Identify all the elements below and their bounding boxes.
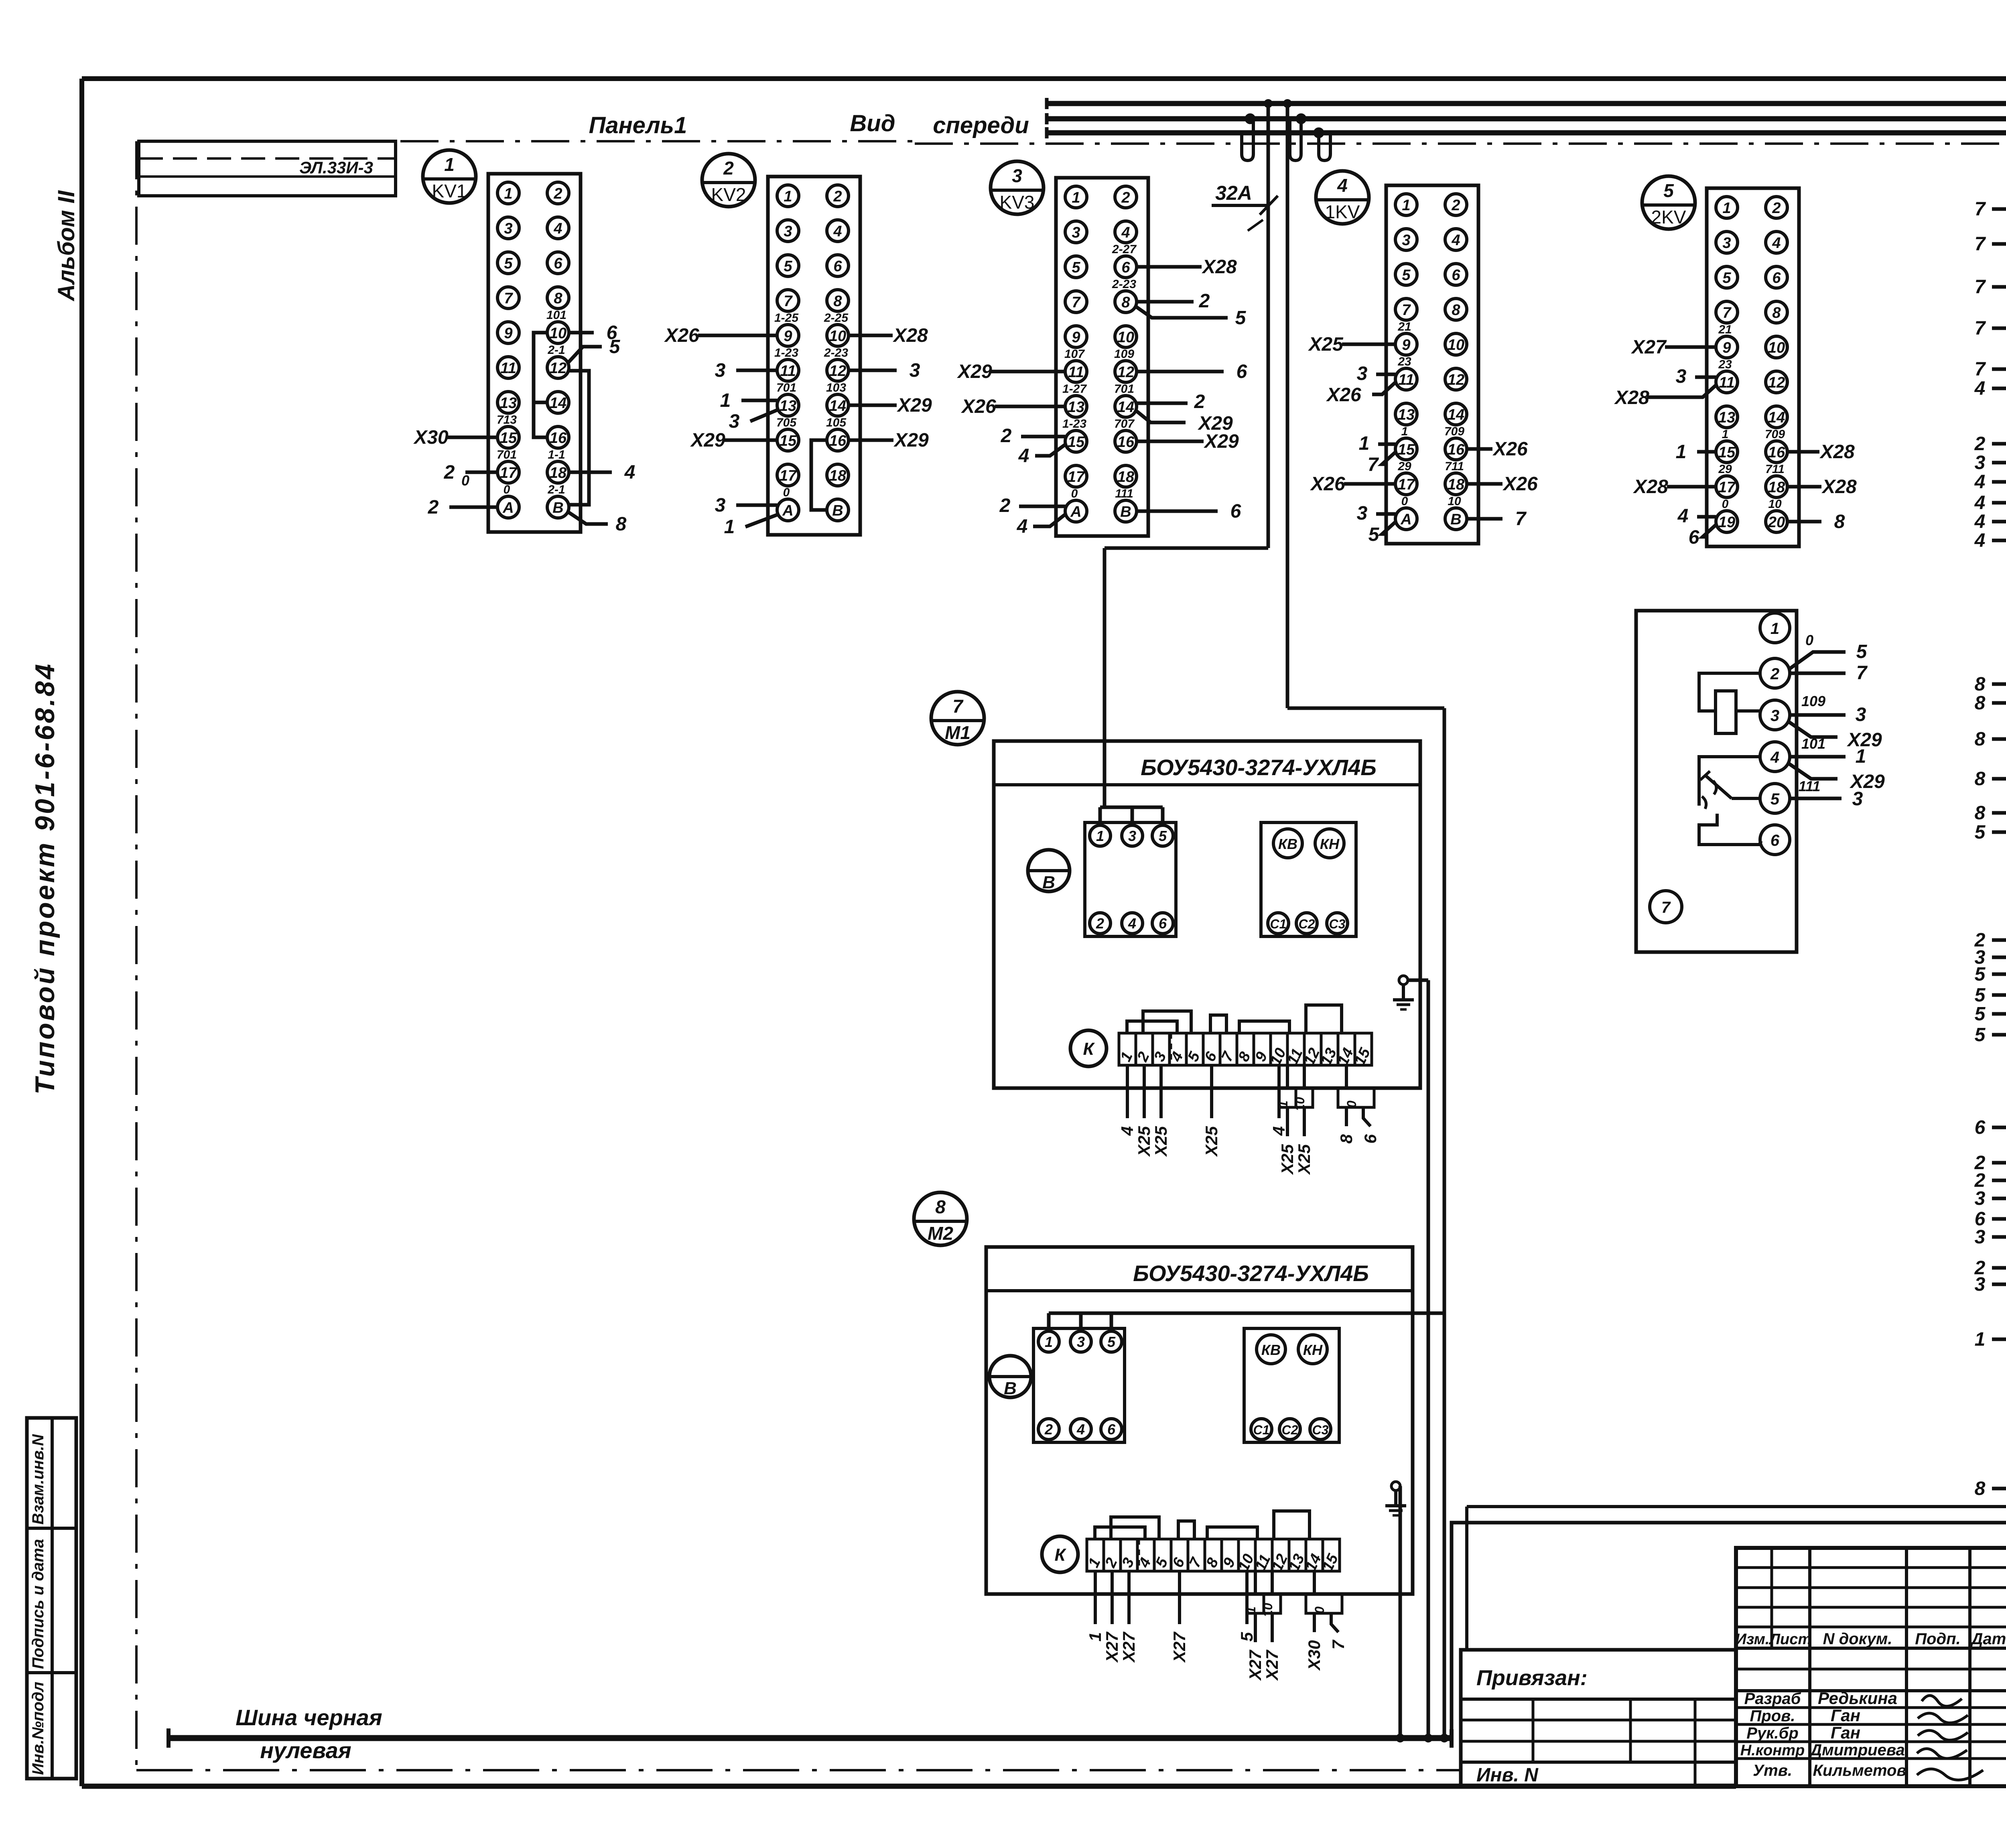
svg-text:3: 3 — [715, 360, 726, 381]
svg-text:8: 8 — [1975, 674, 1986, 695]
svg-text:В: В — [832, 502, 843, 519]
svg-text:7: 7 — [1975, 359, 1986, 380]
svg-text:29: 29 — [1718, 463, 1732, 476]
svg-text:Н.контр: Н.контр — [1740, 1742, 1805, 1759]
svg-text:8: 8 — [1975, 729, 1986, 750]
svg-text:Ган: Ган — [1831, 1723, 1860, 1742]
svg-text:7: 7 — [1722, 305, 1732, 321]
svg-text:С2: С2 — [1282, 1423, 1298, 1437]
svg-text:6: 6 — [554, 255, 562, 272]
svg-text:А: А — [502, 500, 514, 516]
svg-text:5: 5 — [1237, 1632, 1256, 1641]
svg-text:4: 4 — [1974, 378, 1986, 399]
svg-text:1: 1 — [1770, 620, 1779, 638]
svg-text:701: 701 — [497, 448, 517, 461]
svg-text:X29: X29 — [896, 395, 932, 416]
svg-text:7: 7 — [1975, 234, 1986, 255]
svg-text:14: 14 — [1768, 409, 1785, 426]
svg-text:7: 7 — [1368, 454, 1379, 475]
svg-text:7: 7 — [1661, 899, 1671, 916]
svg-text:14: 14 — [1117, 399, 1134, 416]
svg-text:X30: X30 — [1305, 1640, 1324, 1671]
svg-text:Инв. N: Инв. N — [1476, 1765, 1539, 1786]
svg-text:16: 16 — [1768, 444, 1785, 461]
svg-text:4: 4 — [833, 223, 842, 240]
svg-text:X25: X25 — [1151, 1126, 1170, 1157]
svg-text:4: 4 — [1772, 235, 1781, 252]
svg-text:БОУ5430-3274-УХЛ4Б: БОУ5430-3274-УХЛ4Б — [1133, 1261, 1369, 1286]
svg-text:Кильметов: Кильметов — [1813, 1762, 1906, 1779]
svg-text:X26: X26 — [1492, 439, 1528, 460]
svg-text:20: 20 — [1768, 514, 1785, 531]
svg-text:Шина черная: Шина черная — [236, 1705, 382, 1730]
svg-text:13: 13 — [1718, 409, 1735, 426]
svg-text:8: 8 — [1975, 692, 1986, 714]
svg-text:8: 8 — [1121, 294, 1130, 311]
svg-text:15: 15 — [1718, 444, 1736, 461]
svg-text:711: 711 — [1445, 460, 1464, 473]
svg-text:701: 701 — [1114, 382, 1134, 396]
svg-text:X28: X28 — [1632, 476, 1668, 498]
svg-text:1: 1 — [1676, 441, 1687, 463]
svg-text:29: 29 — [1397, 460, 1411, 473]
svg-text:4: 4 — [1974, 471, 1986, 493]
svg-text:5: 5 — [784, 258, 792, 275]
svg-text:2: 2 — [1044, 1421, 1053, 1438]
svg-text:6: 6 — [1770, 832, 1780, 849]
svg-text:6: 6 — [1975, 1117, 1986, 1138]
svg-text:X26: X26 — [664, 325, 699, 346]
svg-text:713: 713 — [497, 413, 517, 426]
svg-text:KV1: KV1 — [432, 181, 467, 201]
svg-text:18: 18 — [550, 465, 567, 481]
svg-text:3: 3 — [1128, 828, 1136, 844]
svg-text:5: 5 — [504, 255, 513, 272]
svg-text:21: 21 — [1397, 320, 1411, 333]
svg-text:16: 16 — [1117, 434, 1135, 451]
svg-text:105: 105 — [826, 416, 847, 429]
svg-text:3: 3 — [504, 220, 512, 237]
svg-text:Лист: Лист — [1768, 1631, 1811, 1648]
svg-text:109: 109 — [1114, 347, 1134, 361]
svg-text:С1: С1 — [1253, 1423, 1270, 1437]
svg-text:X29: X29 — [893, 430, 929, 451]
svg-text:17: 17 — [1068, 469, 1085, 485]
svg-text:4: 4 — [1017, 516, 1028, 537]
svg-text:6: 6 — [1107, 1421, 1116, 1438]
svg-text:X27: X27 — [1263, 1649, 1281, 1681]
svg-text:13: 13 — [1398, 406, 1415, 423]
svg-text:2: 2 — [1770, 665, 1779, 683]
svg-text:8: 8 — [616, 514, 627, 535]
svg-text:9: 9 — [1072, 329, 1080, 346]
svg-text:19: 19 — [1718, 514, 1735, 531]
svg-text:Утв.: Утв. — [1753, 1762, 1792, 1779]
svg-text:М1: М1 — [945, 722, 971, 743]
svg-text:1: 1 — [1722, 428, 1729, 441]
svg-text:КВ: КВ — [1261, 1342, 1281, 1358]
svg-text:4: 4 — [1121, 224, 1130, 241]
svg-text:23: 23 — [1397, 355, 1411, 368]
svg-text:2: 2 — [999, 495, 1011, 516]
svg-text:X28: X28 — [892, 325, 928, 346]
svg-text:709: 709 — [1444, 425, 1464, 438]
svg-text:2-1: 2-1 — [547, 483, 565, 496]
svg-text:4: 4 — [1974, 492, 1986, 514]
svg-text:X26: X26 — [1310, 473, 1345, 495]
svg-text:5: 5 — [1722, 270, 1731, 286]
svg-text:5: 5 — [1856, 641, 1868, 662]
svg-text:10: 10 — [1117, 329, 1134, 346]
svg-text:5: 5 — [1975, 985, 1986, 1006]
svg-text:15: 15 — [780, 433, 797, 449]
svg-text:7: 7 — [1072, 294, 1081, 311]
svg-text:16: 16 — [550, 430, 567, 447]
svg-text:16: 16 — [1448, 441, 1465, 458]
svg-text:Типовой проект 901-6-68.84: Типовой проект 901-6-68.84 — [30, 662, 60, 1095]
svg-text:2-1: 2-1 — [547, 343, 565, 357]
svg-text:3: 3 — [1975, 1227, 1986, 1248]
svg-text:0: 0 — [1071, 487, 1078, 500]
svg-text:1: 1 — [720, 390, 731, 411]
svg-text:14: 14 — [829, 398, 846, 414]
svg-text:103: 103 — [826, 381, 846, 394]
svg-text:4: 4 — [1018, 445, 1029, 467]
svg-text:2: 2 — [1121, 189, 1130, 206]
svg-text:5: 5 — [1975, 822, 1986, 843]
svg-text:2: 2 — [1096, 915, 1104, 932]
svg-text:3: 3 — [1077, 1334, 1085, 1350]
svg-text:6: 6 — [1159, 915, 1167, 932]
svg-text:21: 21 — [1718, 323, 1732, 336]
svg-text:18: 18 — [1768, 479, 1785, 496]
svg-text:0: 0 — [1401, 495, 1408, 508]
svg-text:7: 7 — [1975, 276, 1986, 298]
svg-text:7: 7 — [1329, 1639, 1348, 1649]
svg-text:14: 14 — [1448, 406, 1464, 423]
svg-text:спереди: спереди — [933, 112, 1029, 138]
svg-text:4: 4 — [1974, 530, 1986, 551]
svg-text:6: 6 — [1361, 1134, 1380, 1143]
svg-text:2: 2 — [428, 497, 439, 518]
svg-text:12: 12 — [1768, 374, 1785, 391]
svg-text:16: 16 — [829, 433, 847, 449]
svg-text:1: 1 — [1086, 1632, 1105, 1641]
svg-text:1: 1 — [1402, 197, 1410, 214]
svg-text:X28: X28 — [1201, 256, 1237, 278]
svg-text:1: 1 — [1975, 1329, 1986, 1350]
svg-text:107: 107 — [1064, 347, 1085, 361]
svg-text:3: 3 — [1012, 165, 1022, 186]
svg-text:3: 3 — [715, 495, 726, 516]
svg-text:ЭЛ.33И-3: ЭЛ.33И-3 — [299, 158, 373, 177]
svg-text:5: 5 — [1663, 180, 1674, 201]
svg-text:КН: КН — [1320, 836, 1340, 852]
svg-text:KV3: KV3 — [1000, 192, 1035, 213]
svg-text:1: 1 — [1276, 1101, 1290, 1108]
svg-text:2-23: 2-23 — [1112, 278, 1136, 291]
svg-text:7: 7 — [504, 290, 513, 307]
svg-text:Вид: Вид — [850, 110, 895, 136]
svg-text:Инв.№подл: Инв.№подл — [29, 1681, 47, 1775]
svg-text:10: 10 — [1768, 339, 1785, 356]
svg-text:3: 3 — [1975, 1274, 1986, 1295]
svg-text:711: 711 — [1765, 463, 1785, 476]
svg-text:6: 6 — [1230, 501, 1241, 522]
svg-text:12: 12 — [550, 360, 566, 377]
svg-text:2: 2 — [833, 188, 842, 205]
svg-text:0: 0 — [1312, 1606, 1327, 1614]
svg-text:6: 6 — [1121, 259, 1130, 276]
svg-text:Дата: Дата — [1970, 1630, 2006, 1648]
svg-text:3: 3 — [1357, 363, 1368, 384]
svg-text:В: В — [1120, 504, 1131, 520]
svg-text:3: 3 — [1072, 224, 1080, 241]
svg-text:4: 4 — [1118, 1126, 1137, 1136]
svg-text:М2: М2 — [928, 1223, 953, 1244]
svg-text:17: 17 — [500, 465, 518, 481]
svg-text:17: 17 — [780, 467, 797, 484]
svg-text:2: 2 — [723, 158, 734, 179]
svg-text:Альбом II: Альбом II — [53, 190, 79, 302]
svg-text:3: 3 — [784, 223, 792, 240]
svg-text:13: 13 — [500, 395, 517, 412]
svg-text:Разраб: Разраб — [1744, 1690, 1801, 1708]
svg-text:3: 3 — [1402, 232, 1410, 249]
svg-text:КВ: КВ — [1278, 836, 1297, 852]
svg-text:X25: X25 — [1308, 334, 1344, 355]
svg-text:10: 10 — [550, 325, 566, 342]
svg-text:8: 8 — [1975, 768, 1986, 790]
svg-text:1: 1 — [724, 516, 735, 538]
svg-text:3: 3 — [910, 360, 920, 381]
svg-text:9: 9 — [784, 328, 792, 345]
svg-text:X25: X25 — [1278, 1144, 1297, 1175]
svg-text:4: 4 — [553, 220, 562, 237]
svg-text:1: 1 — [1359, 433, 1370, 454]
svg-text:2-23: 2-23 — [824, 346, 848, 359]
svg-text:С3: С3 — [1312, 1423, 1329, 1437]
svg-text:1-27: 1-27 — [1062, 382, 1087, 396]
svg-text:8: 8 — [1834, 511, 1845, 532]
svg-text:X30: X30 — [413, 427, 449, 448]
svg-text:11: 11 — [1068, 364, 1084, 381]
svg-text:1-23: 1-23 — [774, 346, 798, 359]
svg-text:8: 8 — [935, 1196, 946, 1217]
svg-text:2: 2 — [1199, 290, 1210, 312]
svg-text:КН: КН — [1303, 1342, 1323, 1358]
svg-text:А: А — [782, 502, 793, 519]
svg-text:11: 11 — [1719, 374, 1734, 391]
svg-text:10: 10 — [829, 328, 846, 345]
svg-text:2: 2 — [444, 462, 455, 483]
svg-text:709: 709 — [1765, 428, 1785, 441]
svg-text:13: 13 — [780, 398, 796, 414]
svg-text:В: В — [1042, 873, 1055, 892]
svg-text:18: 18 — [1117, 469, 1135, 485]
svg-text:Редькина: Редькина — [1818, 1689, 1897, 1708]
svg-text:15: 15 — [500, 430, 517, 447]
svg-text:5: 5 — [1770, 790, 1780, 808]
svg-text:7: 7 — [1975, 318, 1986, 339]
svg-text:4: 4 — [1337, 175, 1348, 196]
svg-text:9: 9 — [1402, 337, 1410, 353]
svg-text:4: 4 — [1677, 506, 1689, 527]
svg-text:8: 8 — [1772, 305, 1781, 321]
svg-text:8: 8 — [1975, 1478, 1986, 1499]
svg-text:109: 109 — [1801, 693, 1825, 709]
svg-text:К: К — [1054, 1545, 1066, 1565]
svg-text:12: 12 — [829, 363, 846, 380]
svg-text:БОУ5430-3274-УХЛ4Б: БОУ5430-3274-УХЛ4Б — [1141, 755, 1377, 780]
svg-text:8: 8 — [833, 293, 842, 310]
svg-text:0: 0 — [1722, 498, 1729, 511]
svg-text:4: 4 — [624, 462, 636, 483]
svg-text:N докум.: N докум. — [1823, 1630, 1892, 1648]
svg-text:5: 5 — [609, 336, 621, 357]
svg-text:KV2: KV2 — [711, 184, 746, 205]
svg-text:12: 12 — [1448, 372, 1464, 388]
svg-text:1: 1 — [444, 154, 455, 175]
svg-text:1: 1 — [1096, 828, 1104, 844]
svg-text:8: 8 — [1337, 1134, 1356, 1143]
svg-text:6: 6 — [1236, 361, 1247, 382]
svg-text:4: 4 — [1974, 511, 1986, 532]
svg-text:1: 1 — [504, 185, 512, 202]
svg-text:111: 111 — [1115, 487, 1133, 500]
svg-text:101: 101 — [1801, 735, 1825, 752]
svg-text:5: 5 — [1402, 267, 1411, 284]
svg-text:С2: С2 — [1299, 917, 1315, 931]
svg-text:X27: X27 — [1170, 1631, 1189, 1663]
svg-text:4: 4 — [1269, 1126, 1288, 1136]
svg-text:32А: 32А — [1215, 182, 1252, 204]
svg-text:С3: С3 — [1329, 917, 1346, 931]
svg-text:7: 7 — [784, 293, 793, 310]
svg-text:5: 5 — [1072, 259, 1080, 276]
svg-text:3: 3 — [729, 411, 740, 432]
svg-text:X25: X25 — [1135, 1126, 1153, 1157]
svg-text:2: 2 — [1451, 197, 1460, 214]
svg-text:X28: X28 — [1614, 387, 1649, 408]
svg-text:701: 701 — [776, 381, 796, 394]
svg-text:12: 12 — [1117, 364, 1134, 381]
svg-text:23: 23 — [1718, 358, 1732, 371]
svg-text:5: 5 — [1368, 524, 1380, 545]
svg-text:4: 4 — [1451, 232, 1460, 249]
svg-text:14: 14 — [550, 395, 566, 412]
svg-text:5: 5 — [1975, 1024, 1986, 1046]
svg-text:17: 17 — [1398, 476, 1415, 493]
svg-text:X25: X25 — [1295, 1144, 1314, 1175]
svg-text:Подпись и дата: Подпись и дата — [29, 1539, 47, 1669]
svg-text:3: 3 — [1357, 503, 1368, 524]
svg-text:В: В — [552, 500, 563, 516]
svg-text:Пров.: Пров. — [1750, 1707, 1795, 1725]
svg-text:5: 5 — [1975, 1003, 1986, 1025]
svg-text:Привязан:: Привязан: — [1476, 1666, 1588, 1690]
svg-text:X28: X28 — [1821, 476, 1857, 498]
svg-text:5: 5 — [1975, 964, 1986, 985]
svg-text:3: 3 — [1676, 366, 1687, 387]
svg-text:5: 5 — [1107, 1334, 1116, 1350]
svg-text:X29: X29 — [956, 361, 992, 382]
svg-text:8: 8 — [1452, 302, 1460, 319]
svg-text:1-23: 1-23 — [1062, 417, 1086, 431]
svg-text:2: 2 — [1194, 391, 1205, 412]
svg-text:3: 3 — [1852, 788, 1863, 810]
svg-text:X26: X26 — [1326, 384, 1361, 406]
svg-text:0: 0 — [504, 483, 510, 496]
svg-text:1KV: 1KV — [1325, 201, 1360, 222]
svg-text:8: 8 — [1975, 802, 1986, 824]
svg-text:13: 13 — [1068, 399, 1084, 416]
svg-text:11: 11 — [780, 363, 796, 380]
svg-text:6: 6 — [1689, 527, 1699, 548]
svg-text:5: 5 — [1159, 828, 1167, 844]
svg-text:101: 101 — [546, 309, 566, 322]
svg-text:7: 7 — [952, 696, 964, 717]
svg-text:111: 111 — [1799, 778, 1821, 794]
svg-text:К: К — [1083, 1039, 1095, 1059]
svg-text:X29: X29 — [1203, 431, 1239, 452]
svg-text:2-27: 2-27 — [1112, 243, 1137, 256]
svg-text:705: 705 — [776, 416, 797, 429]
svg-text:3: 3 — [1856, 704, 1866, 725]
svg-text:Ган: Ган — [1831, 1706, 1860, 1725]
svg-text:10: 10 — [1448, 337, 1464, 353]
svg-text:4: 4 — [1128, 915, 1136, 932]
svg-text:3: 3 — [1975, 452, 1986, 473]
svg-text:0: 0 — [783, 486, 790, 499]
svg-text:X29: X29 — [690, 430, 725, 451]
svg-text:9: 9 — [504, 325, 512, 342]
svg-text:1: 1 — [1722, 200, 1731, 217]
svg-text:2: 2 — [553, 185, 562, 202]
svg-text:С1: С1 — [1270, 917, 1287, 931]
svg-text:18: 18 — [829, 467, 847, 484]
svg-text:Взам.инв.N: Взам.инв.N — [29, 1434, 47, 1525]
svg-text:1: 1 — [1401, 425, 1408, 438]
svg-text:2-25: 2-25 — [824, 311, 849, 325]
svg-text:Панель1: Панель1 — [589, 112, 687, 138]
svg-text:А: А — [1400, 511, 1411, 528]
svg-text:1: 1 — [1072, 189, 1080, 206]
svg-text:2: 2 — [1974, 433, 1986, 455]
svg-text:0: 0 — [1344, 1101, 1359, 1108]
svg-text:10: 10 — [1448, 495, 1461, 508]
svg-text:1-25: 1-25 — [774, 311, 799, 325]
svg-text:707: 707 — [1114, 417, 1135, 431]
svg-text:Рук.бр: Рук.бр — [1746, 1724, 1799, 1742]
svg-text:15: 15 — [1068, 434, 1085, 451]
svg-text:7: 7 — [1975, 199, 1986, 220]
svg-text:3: 3 — [1722, 235, 1731, 252]
svg-text:1: 1 — [784, 188, 792, 205]
svg-text:9: 9 — [1722, 339, 1731, 356]
svg-text:5: 5 — [1235, 307, 1247, 329]
svg-text:X27: X27 — [1246, 1649, 1265, 1681]
svg-text:18: 18 — [1448, 476, 1465, 493]
svg-text:8: 8 — [554, 290, 562, 307]
svg-text:1: 1 — [1856, 746, 1866, 767]
svg-text:В: В — [1004, 1379, 1017, 1398]
svg-text:3: 3 — [1770, 707, 1779, 725]
svg-text:Дмитриева: Дмитриева — [1809, 1741, 1904, 1759]
svg-text:4: 4 — [1076, 1421, 1085, 1438]
svg-text:X27: X27 — [1630, 337, 1667, 358]
svg-text:X28: X28 — [1819, 441, 1855, 463]
